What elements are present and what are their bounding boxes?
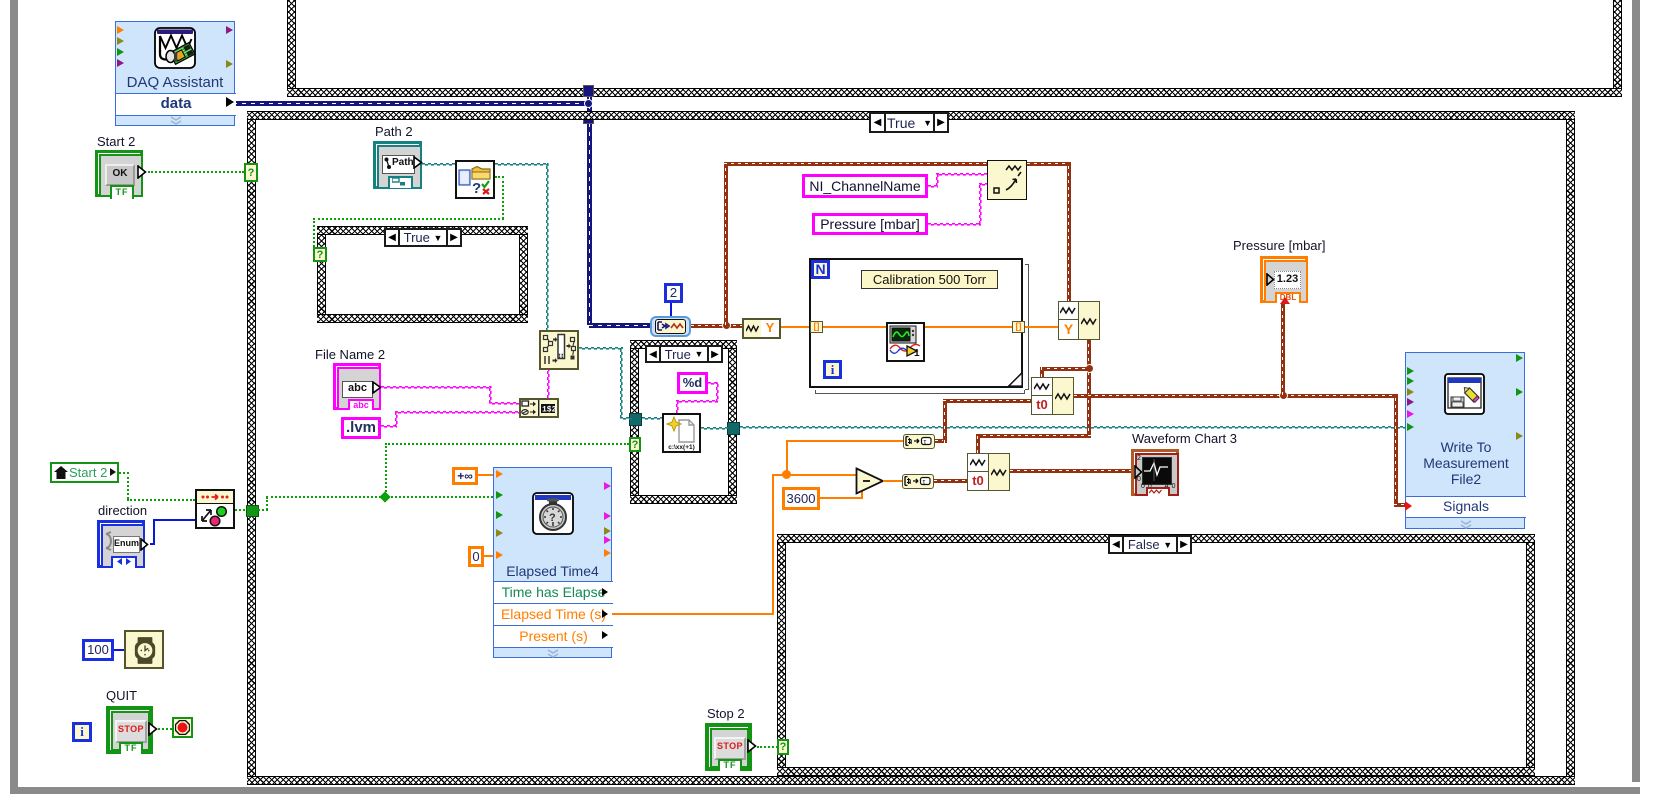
to-long conv node #2 xyxy=(902,474,934,489)
i iteration terminal xyxy=(72,722,92,742)
Start 2 OK button xyxy=(95,150,143,197)
inner case selector terminal xyxy=(629,437,641,452)
file increment node c:\xx(+1) xyxy=(662,413,701,453)
inner case selector label xyxy=(645,345,723,363)
WTMF icon xyxy=(1444,373,1485,415)
Stop 2 label xyxy=(707,706,745,721)
calibration express icon xyxy=(886,322,925,362)
Pressure [mbar] indicator label xyxy=(1233,238,1325,253)
WTMF right arrows xyxy=(1516,354,1523,362)
Path 2 control xyxy=(373,141,422,189)
wire: dialog boolean out down-left to small case selector (green) xyxy=(495,176,504,178)
wire: 0 to ET xyxy=(484,555,495,557)
WTMF signals input arrow xyxy=(1405,501,1412,511)
DAQ terminal arrows xyxy=(117,26,124,34)
Stop 2 button xyxy=(705,723,752,771)
subtract node xyxy=(855,467,885,495)
wire: node A bottom to node B (pink) xyxy=(547,370,550,398)
tunnel on frame1 xyxy=(583,85,594,97)
svg-text:τ: τ xyxy=(922,479,925,486)
wire: Elapsed Time (s) output (orange) xyxy=(612,613,774,615)
t0 #1 node xyxy=(1031,377,1074,415)
direction enum control xyxy=(97,520,145,568)
0 constant xyxy=(468,546,484,567)
wire: t0#2 out to chart (red) xyxy=(1010,469,1134,473)
wire: %d to file node (pink) xyxy=(708,382,718,385)
svg-text:1$2: 1$2 xyxy=(542,406,557,415)
wire: Start2 to frame2 selector xyxy=(148,171,244,173)
wire: 100 to wait xyxy=(114,649,126,651)
wire: local var to select node xyxy=(119,472,129,474)
file dialog node xyxy=(455,160,495,199)
For loop frame xyxy=(809,258,1023,388)
small True case (empty) xyxy=(317,226,326,323)
%d constant xyxy=(677,372,708,394)
wire: red up from junction and right along top xyxy=(724,162,728,325)
case structure frame2 (big True case) xyxy=(247,111,256,785)
False case selector terminal xyxy=(777,739,789,755)
node A (split signals) xyxy=(539,330,579,370)
wires inside for loop (orange) xyxy=(823,326,886,328)
wire: 2 down to pill (blue) xyxy=(670,303,672,317)
Path 2 label xyxy=(375,124,413,139)
Start 2 label xyxy=(97,134,135,149)
wire: for loop out to buildY (orange) xyxy=(1025,326,1058,328)
wire: pill out (waveform red) xyxy=(691,324,744,328)
wire: buildY down to junction (red) xyxy=(1087,340,1091,438)
wire: junction left to t0#1 top xyxy=(1040,367,1087,371)
Pressure [mbar] constant xyxy=(812,213,928,235)
build waveform Y node xyxy=(1058,301,1100,340)
wait (ms) node xyxy=(124,630,164,669)
2 constant xyxy=(664,283,683,303)
File Name 2 string control xyxy=(333,363,381,410)
red junction at Pressure indicator xyxy=(1279,391,1288,400)
convert from dynamic data pill xyxy=(650,316,691,337)
Elapsed Time4 express VI xyxy=(493,467,612,658)
set dynamic attributes node xyxy=(987,160,1027,200)
wire: up to pressure indicator xyxy=(1281,303,1285,395)
wire: down then left to t0#2 top xyxy=(976,434,1091,438)
for loop orange tunnels xyxy=(810,321,823,333)
wire: FileName2 to node B (pink) xyxy=(381,386,491,389)
green junction xyxy=(379,491,390,502)
wire: +inf to ET xyxy=(478,474,495,476)
wire: DAQ data dynamic wire horizontal xyxy=(233,101,589,106)
select node xyxy=(195,489,235,529)
N terminal xyxy=(811,260,830,279)
inner case teal tunnel left xyxy=(629,413,642,426)
NI_ChannelName constant xyxy=(802,174,928,198)
wire: .lvm to node B (pink) xyxy=(381,425,397,428)
svg-text:τ: τ xyxy=(923,439,926,446)
Y get node xyxy=(742,318,781,339)
to-long conv node #1 xyxy=(903,434,935,449)
frame2 green tunnel (select output) xyxy=(246,505,259,517)
orange junction xyxy=(782,470,791,479)
red round stop terminal xyxy=(172,717,193,738)
wire: branch up to inner case selector xyxy=(385,443,387,496)
DAQ Assistant icon xyxy=(154,27,196,69)
case structure frame1 (top, cut off) xyxy=(287,0,296,97)
WTMF left arrows xyxy=(1407,367,1414,375)
100 constant xyxy=(82,639,114,661)
wire: select out to tunnel xyxy=(235,509,249,511)
QUIT label xyxy=(106,688,137,703)
Start 2 local variable xyxy=(50,462,119,483)
wire: conv2 out to t0#2 (red) xyxy=(934,479,967,483)
Calibration label xyxy=(861,270,998,289)
small case selector terminal xyxy=(313,247,327,262)
i terminal (for loop) xyxy=(823,360,842,379)
wire: Stop2 to False selector xyxy=(757,746,778,748)
while loop (grey border) xyxy=(10,0,18,793)
node B (format into string) xyxy=(519,398,559,418)
wire: enum to select node (blue) xyxy=(150,543,155,545)
inner True case (file increment) xyxy=(630,340,639,504)
Write To Measurement File2 express VI xyxy=(1405,352,1525,529)
ET left arrows xyxy=(496,470,503,478)
DAQ Assistant express VI xyxy=(115,21,235,126)
wire: NI_ChannelName to set-attr (pink) xyxy=(928,185,938,188)
wire: teal long output to WTMF xyxy=(740,426,1405,429)
small case selector label xyxy=(384,228,462,247)
wire: 3600 to subtract xyxy=(820,497,863,499)
node: dynamic junction xyxy=(584,99,593,108)
ET right arrows xyxy=(604,482,611,490)
wire: down to Signals xyxy=(1394,394,1398,506)
wire: node A out (teal) to inner case xyxy=(579,347,623,350)
inner case teal tunnel right xyxy=(727,422,740,435)
wire: Path2 to file dialog (teal) xyxy=(422,163,455,166)
wire: dynamic into pill xyxy=(589,323,651,328)
.lvm constant xyxy=(341,417,381,439)
wire: Pressure const to set-attr (pink) xyxy=(928,223,981,226)
wire: t0#1 out right (red) xyxy=(1074,394,1398,398)
red junction 1 xyxy=(722,321,731,330)
tunnel on frame2 top xyxy=(583,112,594,124)
frame2 selector label True xyxy=(869,112,949,133)
wire: dynamic vertical through tunnels xyxy=(587,93,592,325)
stopwatch icon xyxy=(532,492,574,535)
Pressure [mbar] DBL indicator xyxy=(1260,256,1308,303)
t0 #2 node xyxy=(967,453,1010,491)
wire: QUIT to stop terminal xyxy=(158,728,172,730)
Waveform Chart 3 label xyxy=(1132,431,1237,446)
+inf constant xyxy=(452,467,478,485)
frame2 selector terminal ? xyxy=(244,163,258,182)
3600 constant xyxy=(782,487,820,510)
direction label xyxy=(98,503,147,518)
wire: subtract out to conv2 xyxy=(883,480,903,482)
wire: dialog out right, down to node A (teal) xyxy=(495,163,548,166)
False case structure (empty) xyxy=(777,534,786,776)
False selector label xyxy=(1108,535,1192,554)
wire: file node out to tunnel (teal) xyxy=(701,427,728,430)
wire: Y out to for loop (orange) xyxy=(781,326,811,328)
QUIT stop button xyxy=(106,706,153,754)
wire: conv1 out to t0#1 (red) xyxy=(935,439,947,443)
wire: tunnel to file node (teal) xyxy=(642,417,662,420)
svg-text:?: ? xyxy=(472,180,481,196)
File Name 2 label xyxy=(315,347,385,362)
wire: set-attr out right then down to buildY (red) xyxy=(1027,162,1071,166)
Waveform Chart 3 terminal xyxy=(1131,449,1179,496)
